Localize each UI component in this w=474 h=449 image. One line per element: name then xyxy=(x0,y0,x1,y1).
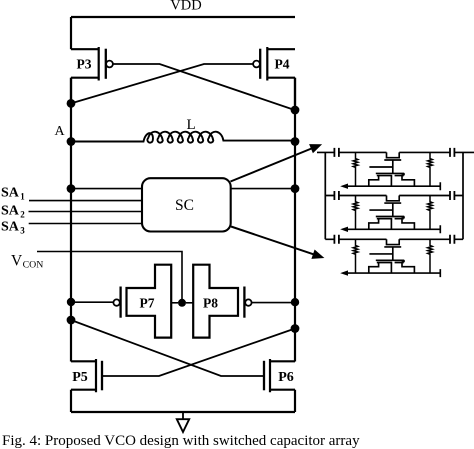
wire VCON xyxy=(37,252,182,303)
svg-text:Fig. 4: Proposed VCO design wi: Fig. 4: Proposed VCO design with switche… xyxy=(2,433,360,449)
arrow row1 out xyxy=(340,184,348,189)
wire P6 gate to left node (cross-couple) xyxy=(71,320,264,376)
transistor P3 xyxy=(71,47,113,103)
wire P3 gate to right drain (cross-couple) xyxy=(113,64,295,110)
transistor M3a M3b pulldown pair xyxy=(376,260,404,262)
svg-text:CON: CON xyxy=(23,260,44,271)
svg-text:VDD: VDD xyxy=(170,0,201,14)
svg-text:L: L xyxy=(187,117,196,133)
wire VDD top rail xyxy=(71,16,295,18)
svg-text:A: A xyxy=(54,124,65,139)
SA1 label xyxy=(1,186,25,202)
junction right SC dot xyxy=(291,184,300,193)
junction P7 gate dot xyxy=(67,298,75,306)
transistor M3 switch xyxy=(384,239,401,260)
VCON label xyxy=(11,252,43,270)
resistor R2b xyxy=(428,196,433,230)
wire row3 top xyxy=(325,238,463,240)
wire row2 top xyxy=(325,195,463,197)
svg-text:SA: SA xyxy=(1,204,20,219)
capacitor C2a xyxy=(334,191,339,200)
transistor M1 switch xyxy=(384,152,401,173)
junction left SC dot xyxy=(67,184,76,193)
arrow row3 out xyxy=(340,270,348,275)
svg-text:P8: P8 xyxy=(203,296,218,311)
capacitor C3b xyxy=(450,235,454,244)
capacitor C1b xyxy=(450,148,454,157)
wire SA2 xyxy=(29,211,143,213)
inductor L xyxy=(71,132,295,143)
SA2 label xyxy=(1,204,25,220)
resistor R1a xyxy=(353,152,358,186)
wire row3 bottom xyxy=(347,269,440,277)
resistor R1b xyxy=(428,152,433,186)
svg-text:P7: P7 xyxy=(140,296,155,311)
junction P8 gate dot xyxy=(291,298,299,306)
wire M1 gate feed xyxy=(369,166,392,168)
transistor P5 xyxy=(71,359,102,412)
wire right rail mid xyxy=(294,78,296,362)
transistor P6 xyxy=(264,359,295,412)
capacitor array xyxy=(317,148,474,277)
junction left lower dot xyxy=(67,316,76,325)
svg-text:3: 3 xyxy=(20,226,25,236)
wire array left bus xyxy=(324,152,326,239)
wire left rail to SC xyxy=(71,188,142,190)
transistor M1a M1b pulldown pair xyxy=(376,173,404,175)
array row 3 xyxy=(325,235,463,277)
resistor R3a xyxy=(353,239,358,273)
transistor M2 switch xyxy=(384,196,401,217)
arrow SC to array upper xyxy=(231,144,323,181)
svg-text:V: V xyxy=(11,252,23,269)
wire left rail upper xyxy=(70,17,72,49)
svg-text:P6: P6 xyxy=(278,370,294,385)
capacitor C2b xyxy=(450,191,454,200)
wire row2 bottom xyxy=(347,225,440,233)
transistor P8 (varactor) xyxy=(186,265,252,338)
svg-text:P3: P3 xyxy=(77,57,92,72)
wire SC to right rail xyxy=(231,188,296,190)
svg-text:1: 1 xyxy=(20,192,25,202)
junction tank right dot xyxy=(291,137,300,146)
arrow SC to array lower xyxy=(231,227,324,259)
junction right lower dot xyxy=(291,324,300,333)
arrow row2 out xyxy=(340,227,348,232)
junction left drain dot xyxy=(67,99,76,108)
wire left rail mid xyxy=(70,78,72,362)
wire P7 gate xyxy=(71,301,113,303)
junction node A dot xyxy=(67,137,76,146)
svg-text:SA: SA xyxy=(1,220,20,235)
SC block U1 xyxy=(142,178,231,231)
wire M3 gate feed xyxy=(369,253,392,255)
transistor M2a M2b pulldown pair xyxy=(376,217,404,219)
wire array right bus xyxy=(462,152,464,239)
wire row1 top xyxy=(317,151,474,153)
svg-text:P4: P4 xyxy=(275,57,290,72)
resistor R2a xyxy=(353,196,358,230)
svg-text:SC: SC xyxy=(175,197,194,214)
resistor R3b xyxy=(428,239,433,273)
capacitor C3a xyxy=(334,235,339,244)
wire M2 gate feed xyxy=(369,209,392,211)
array row 1 xyxy=(317,148,474,190)
wire P5 gate to right node (cross-couple) xyxy=(102,329,295,377)
junction right drain dot xyxy=(291,106,300,115)
array row 2 xyxy=(325,191,463,233)
junction varactor center dot xyxy=(178,299,186,307)
wire P8 gate xyxy=(252,302,295,304)
wire bottom rail xyxy=(71,411,295,413)
transistor P4 xyxy=(253,47,295,110)
ground xyxy=(177,412,189,432)
SA3 label xyxy=(1,220,25,236)
wire P4 gate to left drain (cross-couple) xyxy=(71,64,253,103)
svg-text:2: 2 xyxy=(20,210,25,220)
wire SA3 xyxy=(29,223,142,225)
transistor P7 (varactor) xyxy=(113,265,178,338)
wire row1 bottom xyxy=(347,182,440,190)
svg-text:SA: SA xyxy=(1,186,20,201)
wire SA1 xyxy=(29,200,142,202)
svg-text:P5: P5 xyxy=(72,370,88,385)
capacitor C1a xyxy=(334,148,339,157)
